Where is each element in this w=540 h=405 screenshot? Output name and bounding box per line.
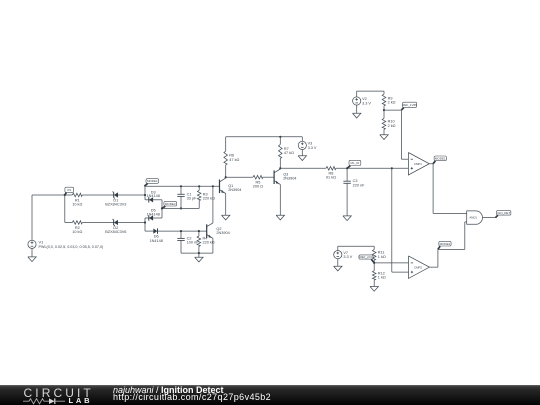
ground below V3 <box>298 150 306 161</box>
diode D6 <box>145 228 207 243</box>
resistor R7 <box>279 137 295 169</box>
junction REF_2V4 <box>373 262 375 264</box>
base rail top <box>145 185 220 187</box>
wire CMP1 output <box>429 164 466 214</box>
svg-text:47 kΩ: 47 kΩ <box>284 151 294 155</box>
footer bar <box>0 385 540 405</box>
wire V7 to R11 <box>338 246 374 250</box>
node ML_IN flag <box>347 160 361 168</box>
wire D5 cathode down <box>144 218 146 231</box>
svg-text:2 kΩ: 2 kΩ <box>388 124 396 128</box>
svg-text:REF_2V4: REF_2V4 <box>359 255 372 259</box>
ground below Q3 <box>276 215 284 220</box>
junction REF_1V65 <box>383 109 385 111</box>
top supply rail <box>226 136 303 138</box>
svg-text:2N3904: 2N3904 <box>216 231 229 235</box>
svg-text:MODE1: MODE1 <box>147 179 158 183</box>
svg-text:91 kΩ: 91 kΩ <box>326 176 336 180</box>
node MODE1 flag <box>144 179 158 187</box>
node KS input flag <box>65 187 74 195</box>
svg-text:MODE2: MODE2 <box>440 242 451 246</box>
junction ML_IN <box>346 167 348 169</box>
transistor Q2 <box>207 223 230 238</box>
capacitor C2 <box>177 230 199 253</box>
svg-text:2N3904: 2N3904 <box>283 176 296 180</box>
svg-text:3.3 V: 3.3 V <box>343 255 352 259</box>
svg-text:2N3904: 2N3904 <box>228 188 241 192</box>
wire AND1 output <box>483 217 496 219</box>
wire C1/R3 bottom rail <box>161 207 199 209</box>
svg-text:1N4148: 1N4148 <box>150 239 163 243</box>
junction Q1 collector node <box>225 176 227 178</box>
svg-text:3.3 V: 3.3 V <box>362 102 371 106</box>
svg-text:1N4148: 1N4148 <box>147 194 160 198</box>
bottom rail C2/R4/Q2 <box>181 252 213 254</box>
resistor R4 <box>197 230 215 253</box>
diode D3 <box>145 190 162 202</box>
svg-text:1 kΩ: 1 kΩ <box>378 255 386 259</box>
svg-text:IGN_DET: IGN_DET <box>497 211 510 215</box>
CircuitLab logo text <box>24 386 94 400</box>
node REF_1V65 flag <box>401 102 417 110</box>
node MODE2 flag at CMP2 <box>438 241 451 249</box>
ground below V1 <box>28 248 36 261</box>
ground below V2 <box>353 105 361 118</box>
wire Q2 collector up <box>212 186 214 223</box>
junction input node <box>64 194 66 196</box>
junction Q2 collector on rail <box>212 185 214 187</box>
svg-text:1 kΩ: 1 kΩ <box>378 276 386 280</box>
wire ML to CMP2 plus <box>392 168 409 272</box>
zener diode D1 <box>105 192 126 207</box>
wire Q1 emitter <box>225 194 227 216</box>
wire Q3 emitter <box>279 184 281 215</box>
svg-text:3.3 V: 3.3 V <box>308 146 317 150</box>
node IGN_DET flag <box>496 211 511 218</box>
resistor R11 <box>372 249 385 263</box>
svg-text:ML_IN: ML_IN <box>350 161 359 165</box>
wire input node down <box>64 195 66 223</box>
svg-text:PWL(0,0, 0.02,5, 0.03,0, 0.05,: PWL(0,0, 0.02,5, 0.03,0, 0.05,5, 0.07,0) <box>39 245 104 249</box>
svg-text:CMP1: CMP1 <box>414 162 422 166</box>
voltage source V3 <box>298 137 317 150</box>
svg-text:BZX84C3V6: BZX84C3V6 <box>105 230 126 234</box>
capacitor C1 <box>177 185 197 209</box>
svg-text:2 kΩ: 2 kΩ <box>388 101 396 105</box>
ground below V7 <box>334 259 342 271</box>
voltage source V7 <box>334 251 353 260</box>
resistor R9 <box>382 94 395 110</box>
ground below C3 <box>343 216 351 221</box>
node MODE1 flag at CMP1 <box>433 156 446 164</box>
resistor R10 <box>382 110 395 135</box>
svg-text:33 pF: 33 pF <box>187 197 197 201</box>
junction Q3 collector node <box>279 167 281 169</box>
wire Q2 emitter <box>212 238 214 253</box>
wire D3 anode down <box>161 200 163 218</box>
ground below Q1 <box>222 215 230 220</box>
footer url text <box>113 392 271 402</box>
ground below R10 <box>380 135 388 140</box>
wire down to CMP1 minus <box>401 110 408 159</box>
capacitor C3 <box>343 168 365 216</box>
transistor Q3 <box>274 169 296 184</box>
junction to CMP2 branch <box>391 167 393 169</box>
and gate AND1 <box>467 211 483 224</box>
zener diode D2 <box>105 219 126 234</box>
svg-text:47 kΩ: 47 kΩ <box>229 158 239 162</box>
wire collector to R8 <box>280 167 326 169</box>
wire CMP2 output <box>429 222 466 267</box>
wire to CMP2 minus <box>374 262 408 264</box>
resistor R8 <box>326 167 409 180</box>
svg-text:MODE2: MODE2 <box>165 202 176 206</box>
wire vertical D1/D3 node <box>144 186 146 200</box>
svg-text:REF_1V65: REF_1V65 <box>402 103 417 107</box>
node MODE2 flag <box>162 201 177 208</box>
svg-text:AND1: AND1 <box>469 216 477 220</box>
svg-text:MODE1: MODE1 <box>435 157 446 161</box>
resistor R12 <box>372 263 385 287</box>
footer title text <box>113 385 224 395</box>
op-amp CMP1 <box>408 153 429 176</box>
transistor Q1 <box>220 177 242 193</box>
resistor R5 <box>226 175 274 188</box>
voltage source V2 <box>353 97 372 106</box>
resistor R3 <box>197 185 215 208</box>
svg-text:BZX84C3V3: BZX84C3V3 <box>105 203 126 207</box>
svg-text:CMP2: CMP2 <box>414 265 422 269</box>
svg-text:10 kΩ: 10 kΩ <box>72 203 82 207</box>
svg-text:D6: D6 <box>154 235 159 239</box>
wire V2 to R9 <box>357 91 384 97</box>
resistor R6 <box>224 137 240 177</box>
svg-text:1N4148: 1N4148 <box>147 213 160 217</box>
svg-text:V1: V1 <box>39 239 44 244</box>
svg-text:10 kΩ: 10 kΩ <box>72 230 82 234</box>
svg-text:220 nF: 220 nF <box>353 184 366 188</box>
wire junction to corner <box>384 109 401 111</box>
resistor R2 <box>65 221 114 234</box>
wire D1 to node <box>118 194 145 196</box>
diode D5 <box>145 209 162 221</box>
op-amp CMP2 <box>409 256 430 279</box>
ground below block <box>195 253 203 262</box>
voltage source V1 <box>28 239 103 249</box>
node REF_2V4 flag <box>359 255 374 263</box>
svg-text:200 Ω: 200 Ω <box>253 185 263 189</box>
wire V1 to input node <box>32 195 65 240</box>
ground below R12 <box>370 287 378 292</box>
svg-text:KS: KS <box>67 188 71 192</box>
resistor R1 <box>65 193 114 206</box>
wire D2 to node <box>118 222 145 224</box>
